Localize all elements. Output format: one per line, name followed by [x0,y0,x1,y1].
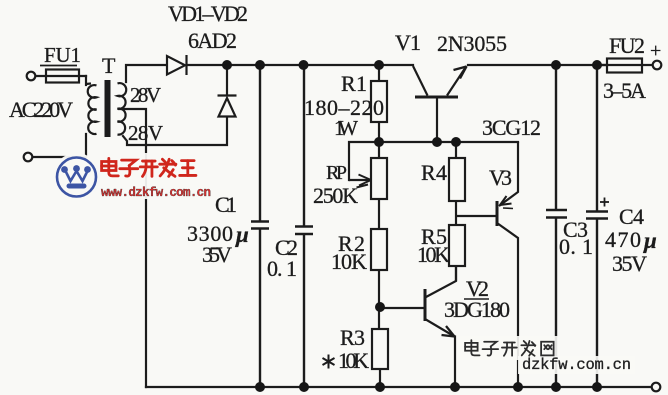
svg-text:C4: C4 [619,204,644,229]
node: C4 bottom rail [592,382,602,392]
svg-text:3–5A: 3–5A [603,78,646,103]
diode VD1 [167,55,187,75]
svg-text:www.dzkfw.com.cn: www.dzkfw.com.cn [101,186,211,200]
node: C2 top rail [299,60,309,70]
fuse FU2 [607,59,642,73]
capacitor C3 [546,65,567,387]
svg-text:1W: 1W [334,116,358,140]
svg-text:RP: RP [326,162,347,184]
node: R2-R3-V2 base [375,302,385,312]
node: C1 top rail [255,60,265,70]
bottom watermark text dianzikaifawang gray [465,340,553,356]
node: C3 bottom rail [551,382,561,392]
transformer T secondary winding [118,83,127,135]
resistor R2 [371,229,387,329]
node: VD2 top rail [222,60,232,70]
resistor R5 [449,225,465,281]
wire: secondary bottom to VD2 anode [123,117,227,145]
label V2 underline [464,298,489,300]
node: R1 bottom mid rail [374,137,384,147]
svg-text:10K: 10K [417,242,450,267]
svg-text:35V: 35V [612,251,647,276]
svg-text:FU1: FU1 [44,43,81,67]
label R3 value [323,355,335,369]
svg-text:3CG12: 3CG12 [482,115,541,140]
svg-text:V3: V3 [489,165,512,190]
svg-text:28V: 28V [128,121,163,145]
wire: middle rail y=142 [349,142,518,180]
capacitor C4 plus sign [600,198,609,207]
wire: transformer center tap down [119,109,146,387]
transistor V2 [380,266,456,387]
terminal: DC output + [653,61,662,70]
node: C4 top rail [592,60,602,70]
svg-text:2N3055: 2N3055 [437,31,507,56]
svg-text:AC220V: AC220V [9,97,73,122]
terminal: AC input lower [24,153,33,162]
wire: primary top lead [85,76,87,85]
svg-text:T: T [102,53,116,78]
svg-text:dzkfw.com.cn: dzkfw.com.cn [522,356,631,374]
terminal: DC output - [652,383,661,392]
svg-text:R3: R3 [340,325,365,350]
wire: AC input bottom lead [32,134,86,157]
svg-text:10K: 10K [331,249,367,274]
transformer T core [105,80,111,137]
svg-text:3DG180: 3DG180 [444,297,510,322]
svg-text:FU2: FU2 [609,33,645,58]
svg-text:6AD2: 6AD2 [188,28,237,53]
wire: bottom rail [146,386,652,388]
capacitor C4 [586,65,608,387]
svg-text:R1: R1 [341,71,367,96]
potentiometer RP [349,142,387,229]
wire: top rail from transformer to VD1 [126,65,167,82]
capacitor C1 [251,65,269,387]
svg-text:28V: 28V [130,83,161,107]
wire: FU2 to output + terminal [597,64,652,66]
terminal: AC input upper [27,72,36,81]
svg-text:C1: C1 [215,192,237,217]
watermark logo blue circle [57,158,96,197]
svg-text:μ: μ [235,222,249,247]
svg-text:0. 1: 0. 1 [559,234,593,259]
svg-text:μ: μ [643,228,657,253]
node: C2 bottom rail [299,382,309,392]
transformer T primary winding [86,84,97,135]
svg-text:VD1–VD2: VD1–VD2 [168,1,248,26]
wire: top rail V1 emitter to FU2 [468,64,607,66]
wire: AC input top lead through FU1 [35,75,86,77]
svg-text:10K: 10K [338,348,369,373]
watermark logo W mark [65,170,88,181]
capacitor C2 [295,65,313,387]
svg-text:0. 1: 0. 1 [267,256,297,281]
watermark logo white halo [53,153,101,201]
transistor V3 [456,142,518,387]
fuse FU1 [46,70,79,83]
node: R4 top mid rail [451,137,461,147]
transistor V1 [413,66,467,142]
wire: top rail VD1 cathode to V1 collector [187,64,413,66]
potentiometer RP wiper arrowhead [357,175,372,188]
svg-text:250K: 250K [313,183,358,208]
label FU1 underline [40,65,77,67]
svg-text:V1: V1 [395,30,421,55]
svg-text:R4: R4 [421,160,447,185]
svg-text:35V: 35V [202,242,232,267]
watermark text dianzikaifawang red [102,158,196,176]
node: V3 collector bottom rail [513,382,523,392]
node: V1 base mid rail [432,137,442,147]
node: C3 top rail [551,60,561,70]
diode VD2 [218,65,237,117]
svg-text:470: 470 [605,227,641,252]
bottom watermark halo [458,336,560,360]
node: V2 emitter bottom rail [450,382,460,392]
resistor R3 [372,329,388,387]
resistor R4 [449,142,465,225]
svg-text:+: + [650,40,661,62]
node: R1 top rail [374,60,384,70]
node: C1 bottom rail [255,382,265,392]
node: R3 bottom rail [375,382,385,392]
resistor R1 [371,65,387,142]
